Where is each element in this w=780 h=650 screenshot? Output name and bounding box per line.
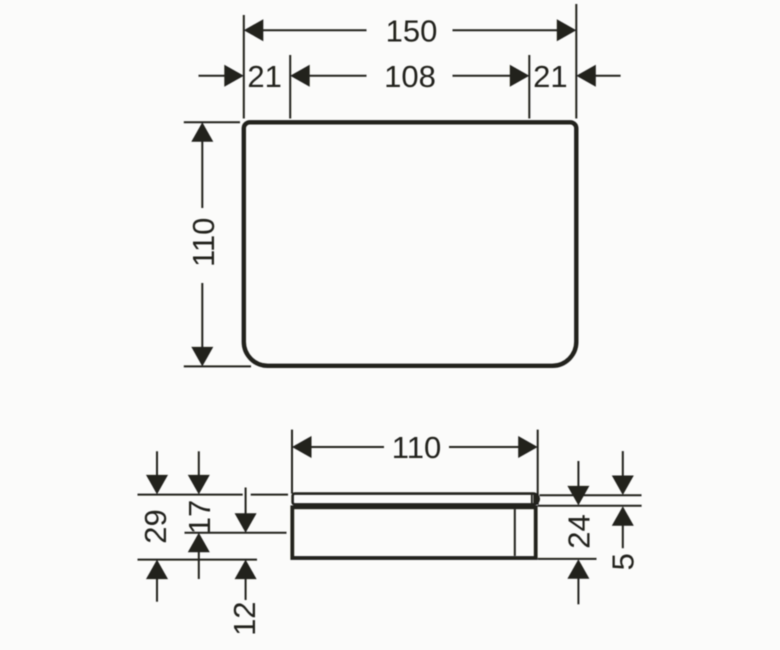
dim line 110b left segment [308, 446, 384, 448]
dim row2 segment 108-right [453, 75, 513, 77]
dim 5 top tail [622, 451, 624, 476]
dim 12 bottom tail [245, 578, 247, 600]
arrow 21-right outside [576, 65, 596, 87]
svg-text:5: 5 [606, 553, 641, 570]
arrow 24 up [567, 559, 589, 579]
arrow 17 down [188, 475, 210, 495]
svg-text:21: 21 [533, 59, 567, 94]
dimension line 150 right segment [453, 29, 561, 31]
side view ext line body-bottom left [138, 559, 258, 561]
dimension line 150 left segment [260, 29, 367, 31]
extension line 110b left [291, 430, 293, 494]
arrow 17 up [188, 533, 210, 553]
arrow 110b left [292, 436, 312, 458]
arrow 150 right [557, 19, 577, 41]
dim 17 top tail [198, 451, 200, 476]
glass tick right [531, 495, 533, 505]
arrow 12 down [235, 513, 257, 533]
arrow 21-left outside [224, 65, 244, 87]
arrow 110b right [518, 436, 538, 458]
arrow 150 left [244, 19, 263, 41]
dim 24 bottom tail [577, 578, 579, 605]
arrow 5 up [612, 506, 634, 526]
extension line inner-left (21/108 dim) [289, 55, 291, 119]
arrow 110 up [191, 122, 213, 142]
extension line bottom (110 left dim) [184, 365, 251, 367]
svg-text:108: 108 [384, 59, 436, 94]
extension line top (110 left dim) [184, 121, 240, 123]
arrow 108 left [290, 65, 310, 87]
extension line 110b right [537, 430, 539, 505]
side view ext line body-top right [538, 505, 642, 507]
side view ext line glass-top left part2 [251, 494, 288, 496]
side view ext line 17-bottom left [185, 532, 287, 534]
dim 17 bottom tail [198, 552, 200, 580]
svg-text:24: 24 [562, 514, 597, 548]
side view ext line glass-top right [540, 494, 642, 496]
extension line right (150 dim) [575, 4, 577, 119]
dim row2 tail far-left [199, 75, 227, 77]
dim line 110 upper segment [201, 139, 203, 208]
svg-text:110: 110 [392, 430, 441, 465]
arrow 24 down [567, 486, 589, 506]
arrow 12 up [235, 560, 257, 580]
arrow 5 down [612, 476, 634, 496]
dim 24 top tail [577, 461, 579, 487]
arrow 29 down [146, 475, 168, 495]
extension line inner-right (108/21 dim) [528, 55, 530, 119]
svg-text:110: 110 [186, 218, 221, 267]
glass right end cap fill [533, 493, 540, 505]
svg-text:17: 17 [182, 500, 217, 534]
svg-text:12: 12 [227, 601, 262, 635]
dim row2 segment 108-left [308, 75, 367, 77]
dim 29 top tail [156, 451, 158, 476]
dim 5 bottom tail [622, 525, 624, 549]
side view ext line body-bottom right [538, 558, 597, 560]
arrow 110 down [191, 347, 213, 367]
dim line 110b right segment [449, 446, 521, 448]
svg-text:21: 21 [247, 59, 281, 94]
shelf top view outline [244, 122, 577, 365]
holder inner line [514, 509, 516, 556]
dim 29 bottom tail [156, 578, 158, 602]
dim row2 tail far-right [594, 75, 621, 77]
side view ext line glass-top left [138, 494, 243, 496]
extension line left (150 dim) [243, 15, 245, 119]
dim 12 top tail [245, 488, 247, 515]
svg-text:150: 150 [386, 14, 438, 49]
glass shelf profile [293, 494, 539, 505]
arrow 108 right [510, 65, 530, 87]
svg-text:29: 29 [138, 509, 173, 543]
arrow 29 up [146, 560, 168, 580]
holder body profile [292, 507, 535, 558]
dim line 110 lower segment [201, 283, 203, 350]
